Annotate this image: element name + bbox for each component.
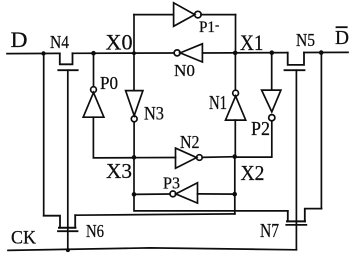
wire: main wire down to P2 bbox=[271, 53, 273, 90]
wire: X3 to N2 input bbox=[93, 157, 175, 159]
node X3 bbox=[132, 155, 137, 160]
wire: N4 gate down through N6 gate to CK bbox=[67, 70, 69, 250]
svg-text:CK: CK bbox=[11, 228, 36, 249]
transistor N6 bbox=[44, 215, 104, 241]
inverter N0 bbox=[174, 44, 202, 80]
wire: X3 down to P3 line bbox=[133, 157, 135, 194]
wire: N1 input down to X2 bbox=[234, 120, 236, 157]
svg-text:N6: N6 bbox=[86, 221, 104, 241]
wire: D column down to N6 bbox=[43, 54, 45, 216]
node X0 bbox=[91, 51, 96, 56]
wire: P0 input down and over to X3 bbox=[93, 117, 134, 158]
label D-bar bbox=[335, 27, 349, 49]
wire: top loop left vertical bbox=[133, 15, 135, 54]
wire: P3 line right segment bbox=[198, 193, 235, 195]
wire: X2 column down to N6 rail bbox=[234, 157, 236, 214]
svg-text:D: D bbox=[11, 27, 28, 52]
svg-text:X0: X0 bbox=[106, 30, 133, 55]
inverter N3 bbox=[126, 91, 164, 125]
node: X2 column / P3 line junction bbox=[232, 192, 237, 197]
svg-text:X1: X1 bbox=[240, 30, 264, 55]
wire: N0 base through X1 and P2 junction to N5 bbox=[202, 52, 287, 54]
wire: loop top right segment bbox=[201, 14, 236, 16]
wire: N5 to D-bar bbox=[304, 51, 348, 53]
transistor N5 bbox=[285, 30, 316, 70]
wire: N4 to X0 to N0 input bbox=[73, 52, 174, 54]
node: D-bar column junction bbox=[319, 50, 324, 55]
wire: D-bar column down to N7 bbox=[320, 53, 322, 209]
node X1 bbox=[233, 51, 238, 56]
wire: CK clock rail bbox=[8, 248, 296, 251]
svg-text:N7: N7 bbox=[260, 221, 279, 242]
node: D column junction bbox=[41, 51, 45, 55]
wire: main wire down to N3 bbox=[133, 53, 135, 90]
wire: top loop right vertical bbox=[235, 15, 237, 53]
wire: N3 output to X3 bbox=[133, 122, 135, 158]
svg-text:P3: P3 bbox=[163, 174, 180, 193]
wire: X3 column down and right to N7 (bottom loop) bbox=[134, 194, 288, 211]
wire: N6 right terminal rail to X2 column bbox=[75, 214, 235, 215]
inverter P1 bbox=[174, 3, 219, 36]
svg-text:N5: N5 bbox=[296, 30, 315, 50]
node: X3 column / P3 line junction bbox=[132, 192, 137, 197]
transistor N7 bbox=[260, 209, 322, 242]
node: P2 column junction on main wire bbox=[270, 50, 275, 55]
svg-text:P1: P1 bbox=[199, 19, 215, 36]
svg-text:N2: N2 bbox=[180, 132, 200, 152]
inverter N1 bbox=[209, 90, 246, 120]
svg-text:N1: N1 bbox=[209, 93, 227, 114]
node: N3 column on main wire bbox=[132, 51, 136, 55]
wire: D input lead bbox=[7, 52, 60, 54]
svg-text:N0: N0 bbox=[174, 61, 195, 80]
wire: loop top left segment bbox=[134, 14, 174, 16]
wire: P2 output down and left to X2 bbox=[235, 121, 272, 157]
svg-text:P2: P2 bbox=[251, 119, 270, 140]
node: N6 gate / CK junction bbox=[66, 248, 70, 252]
wire: N2 output to X2 bbox=[202, 156, 235, 159]
inverter P0 bbox=[83, 73, 118, 117]
wire: X1 down to N1 bbox=[234, 53, 236, 90]
wire: P3 line left segment bbox=[134, 193, 170, 195]
svg-text:X2: X2 bbox=[241, 161, 265, 185]
transistor N4 bbox=[50, 32, 78, 70]
inverter P3 bbox=[163, 174, 198, 204]
svg-text:P0: P0 bbox=[100, 73, 118, 93]
wire: X0 down to P0 bbox=[93, 53, 95, 86]
inverter P2 bbox=[251, 90, 281, 140]
node X2 bbox=[232, 154, 237, 159]
svg-text:D: D bbox=[335, 28, 349, 49]
svg-text:N3: N3 bbox=[144, 105, 164, 125]
svg-text:N4: N4 bbox=[50, 32, 69, 52]
wire: N5 gate down through N7 gate to CK bbox=[295, 70, 297, 250]
svg-text:X3: X3 bbox=[106, 159, 132, 183]
inverter N2 bbox=[176, 132, 203, 168]
